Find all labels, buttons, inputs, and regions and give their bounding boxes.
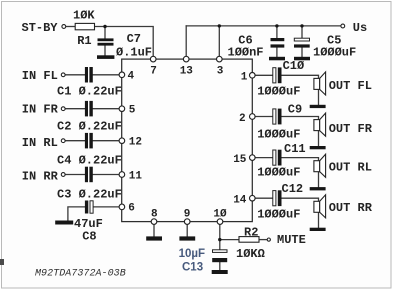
svg-text:10µF: 10µF xyxy=(179,248,205,260)
svg-text:C8: C8 xyxy=(82,230,96,244)
capacitor C8 xyxy=(85,201,93,214)
wire IN FR to C2 xyxy=(65,108,85,110)
pin 15 xyxy=(250,155,256,161)
svg-text:Us: Us xyxy=(353,21,367,35)
wire pin 10 to C13 xyxy=(219,224,221,249)
svg-text:C1 Ø.22uF: C1 Ø.22uF xyxy=(57,85,122,99)
capacitor C6 xyxy=(271,38,285,48)
speaker OUT FL xyxy=(314,72,326,95)
svg-text:C1Ø: C1Ø xyxy=(283,59,305,73)
terminal IN RL xyxy=(61,139,65,143)
resistor R2 xyxy=(239,237,259,243)
svg-text:9: 9 xyxy=(184,208,191,220)
pin 10 xyxy=(217,219,223,225)
scan artifact bottom-left xyxy=(0,259,4,265)
pin 8 xyxy=(151,219,157,225)
wire C12 to speaker RR xyxy=(282,198,319,201)
wire speaker RL to ground xyxy=(318,172,320,187)
wire C6 upper stub xyxy=(276,26,278,38)
wire ST-BY to R1 xyxy=(66,26,75,28)
svg-text:1Ø: 1Ø xyxy=(213,208,227,220)
svg-text:13: 13 xyxy=(180,65,194,77)
svg-text:6: 6 xyxy=(128,203,135,215)
ground (C13) xyxy=(212,270,228,274)
svg-text:15: 15 xyxy=(233,154,247,166)
pin 6 xyxy=(119,204,125,210)
wire C2 to pin 5 xyxy=(93,108,119,110)
wire C8 to ground xyxy=(68,207,85,221)
wire C6 lower stub xyxy=(276,48,278,58)
pin 3 xyxy=(217,56,223,62)
terminal IN RR xyxy=(61,173,65,177)
pin 7 xyxy=(150,56,156,62)
capacitor C9 xyxy=(273,109,282,125)
pin 5 xyxy=(119,106,125,112)
speaker OUT RL xyxy=(314,154,326,177)
svg-text:1ØØØuF: 1ØØØuF xyxy=(257,85,300,99)
ground (pin 8) xyxy=(146,236,162,240)
terminal MUTE xyxy=(267,238,270,241)
svg-text:IN FR: IN FR xyxy=(22,103,59,117)
svg-text:OUT RL: OUT RL xyxy=(329,161,372,175)
svg-text:1ØØØuF: 1ØØØuF xyxy=(257,128,300,142)
svg-text:C12: C12 xyxy=(282,182,304,196)
svg-text:C11: C11 xyxy=(284,142,306,156)
capacitor C1 xyxy=(85,67,93,83)
wire rail to pin 13 xyxy=(185,26,187,57)
wire rail to pin 3 xyxy=(218,26,220,57)
pin 2 xyxy=(250,114,256,120)
svg-text:7: 7 xyxy=(150,65,157,77)
svg-text:C13: C13 xyxy=(182,261,203,273)
terminal ST-BY xyxy=(62,25,66,29)
svg-text:Ø.1uF: Ø.1uF xyxy=(116,45,152,59)
wire pin 9 to ground xyxy=(186,224,188,236)
ground (C5) xyxy=(294,57,310,61)
svg-text:1ØKΩ: 1ØKΩ xyxy=(236,247,265,261)
svg-text:IN RL: IN RL xyxy=(22,136,58,150)
ground (speaker RR) xyxy=(310,228,326,231)
terminal IN FR xyxy=(61,107,65,111)
ground (speaker FL) xyxy=(310,105,326,108)
capacitor C10 xyxy=(273,67,282,83)
svg-text:MUTE: MUTE xyxy=(277,233,306,247)
svg-text:IN RR: IN RR xyxy=(22,169,59,183)
svg-text:C7: C7 xyxy=(127,32,141,46)
junction node (pin10/R2/C13) xyxy=(218,238,221,241)
svg-text:C4 Ø.22uF: C4 Ø.22uF xyxy=(57,154,122,168)
capacitor C4 xyxy=(85,133,93,149)
wire speaker RR to ground xyxy=(318,212,320,227)
wire C7 upper stub xyxy=(104,27,106,39)
ground (C8) xyxy=(55,221,73,225)
ground (pin 9) xyxy=(179,236,195,240)
svg-text:C9: C9 xyxy=(288,103,302,117)
resistor R1 xyxy=(75,23,94,29)
capacitor C7 xyxy=(98,38,114,45)
ground (C7) xyxy=(97,55,114,59)
wire node to R2 xyxy=(220,239,239,241)
svg-text:8: 8 xyxy=(151,208,158,220)
svg-text:M92TDA7372A-03B: M92TDA7372A-03B xyxy=(35,268,126,279)
wire pin 1 to C10 xyxy=(255,74,272,76)
svg-text:OUT RR: OUT RR xyxy=(329,201,373,215)
junction node (C6 rail) xyxy=(275,24,278,27)
capacitor C5 xyxy=(294,38,310,47)
wire IN RR to C3 xyxy=(65,174,85,176)
svg-text:4: 4 xyxy=(128,71,135,83)
svg-text:IN FL: IN FL xyxy=(22,69,58,83)
pin 4 xyxy=(119,72,125,78)
svg-text:5: 5 xyxy=(129,104,136,116)
junction node (C5 rail) xyxy=(300,24,303,27)
svg-text:1ØØØuF: 1ØØØuF xyxy=(257,207,300,221)
svg-text:C2 Ø.22uF: C2 Ø.22uF xyxy=(57,120,122,134)
capacitor C11 xyxy=(273,150,282,166)
pin 1 xyxy=(250,73,256,79)
svg-text:1ØØØuF: 1ØØØuF xyxy=(313,46,356,60)
wire C4 to pin 12 xyxy=(93,140,119,142)
wire pin 14 to C12 xyxy=(255,197,272,199)
junction node (pin 3 rail) xyxy=(218,24,221,27)
wire C7 lower stub xyxy=(104,45,106,55)
ground (speaker RL) xyxy=(310,187,326,190)
svg-text:R1: R1 xyxy=(77,34,91,48)
wire supply rail to Us xyxy=(186,25,341,27)
svg-text:11: 11 xyxy=(129,170,143,182)
wire pin 2 to C9 xyxy=(255,116,272,118)
pin 12 xyxy=(119,138,125,144)
wire C10 to speaker FL xyxy=(282,75,319,78)
svg-text:2: 2 xyxy=(239,113,246,125)
wire speaker FR to ground xyxy=(318,131,320,146)
speaker OUT RR xyxy=(314,195,326,218)
capacitor C13 xyxy=(212,250,227,262)
pin 9 xyxy=(184,219,190,225)
wire R2 to MUTE terminal xyxy=(259,239,267,241)
wire speaker FL to ground xyxy=(318,89,320,104)
capacitor C3 xyxy=(85,167,93,183)
svg-text:1: 1 xyxy=(241,72,248,84)
wire pin 8 to ground xyxy=(153,224,155,236)
wire C5 lower stub xyxy=(301,48,303,58)
ground (C6) xyxy=(269,57,285,61)
wire C1 to pin 4 xyxy=(93,74,119,76)
wire R1 to pin 7 xyxy=(95,27,154,57)
capacitor C12 xyxy=(273,190,282,206)
svg-text:1ØØØuF: 1ØØØuF xyxy=(257,166,300,180)
svg-text:OUT FL: OUT FL xyxy=(329,79,372,93)
wire IN RL to C4 xyxy=(65,140,85,142)
svg-text:14: 14 xyxy=(233,194,247,206)
wire C3 to pin 11 xyxy=(93,174,119,176)
svg-text:OUT FR: OUT FR xyxy=(329,122,373,136)
wire pin 15 to C11 xyxy=(255,157,272,159)
wire C13 lower stub xyxy=(219,262,221,270)
svg-text:1ØK: 1ØK xyxy=(73,9,95,23)
pin 11 xyxy=(119,172,125,178)
wire C11 to speaker RL xyxy=(282,158,319,161)
pin 14 xyxy=(250,195,256,201)
pin 13 xyxy=(183,56,189,62)
svg-text:1ØØnF: 1ØØnF xyxy=(228,46,264,60)
terminal Us xyxy=(341,24,345,28)
svg-text:3: 3 xyxy=(217,65,224,77)
ground (speaker FR) xyxy=(310,146,326,149)
junction node (R1/C7) xyxy=(103,25,106,28)
speaker OUT FR xyxy=(314,113,326,136)
svg-text:C3 Ø.22uF: C3 Ø.22uF xyxy=(57,188,122,202)
svg-text:12: 12 xyxy=(129,137,142,149)
terminal IN FL xyxy=(61,73,65,77)
svg-text:R2: R2 xyxy=(244,225,258,239)
wire C8 to pin 6 xyxy=(93,206,119,208)
wire C5 upper stub xyxy=(301,26,303,38)
svg-text:ST-BY: ST-BY xyxy=(22,21,59,35)
wire IN FL to C1 xyxy=(65,74,85,76)
capacitor C2 xyxy=(85,101,93,117)
wire C9 to speaker FR xyxy=(282,117,319,120)
op-amp U1 TDA7372A box xyxy=(122,59,253,222)
